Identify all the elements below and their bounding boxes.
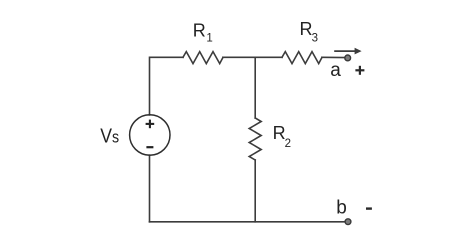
resistor R1 (183, 52, 223, 64)
voltage source minus sign (146, 146, 153, 148)
resistor R3 (282, 52, 322, 64)
terminal a dot (345, 55, 351, 61)
svg-text:1: 1 (206, 33, 212, 45)
terminal b dot (345, 219, 351, 225)
wire left vertical + top segment from Vs to R1 (150, 57, 184, 115)
svg-text:Vs: Vs (100, 125, 119, 148)
resistor R2 (249, 118, 261, 160)
wire node to R2 (254, 57, 256, 118)
svg-text:3: 3 (312, 32, 318, 44)
minus sign at terminal b (366, 207, 372, 209)
wire R1 to R3 through node (223, 56, 282, 58)
wire bottom from Vs to terminal b (150, 221, 346, 223)
current arrow at terminal a (334, 48, 361, 55)
svg-text:b: b (336, 198, 347, 219)
wire R3 to terminal a (322, 56, 345, 58)
svg-text:R: R (193, 20, 206, 40)
voltage source VS circle (130, 115, 170, 155)
svg-text:a: a (330, 60, 341, 81)
wire left vertical bottom from Vs (149, 155, 151, 222)
svg-text:2: 2 (285, 138, 291, 150)
svg-text:R: R (300, 19, 313, 39)
plus sign at terminal a (355, 66, 364, 75)
label VS (100, 125, 119, 148)
wire R2 to bottom (254, 160, 256, 222)
voltage source plus sign (146, 120, 155, 129)
